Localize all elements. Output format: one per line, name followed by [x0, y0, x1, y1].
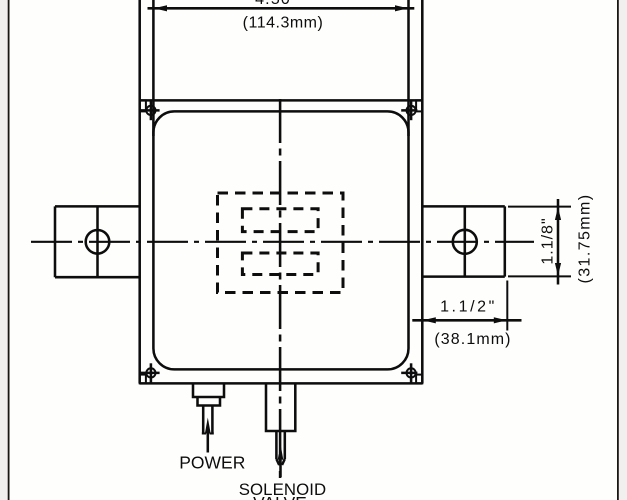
wire: right extension line of 1.1/2in dimension — [506, 281, 508, 331]
svg-text:(114.3mm): (114.3mm) — [243, 15, 324, 32]
wire: left dimension extension line through screw A — [152, 0, 155, 136]
wire: leader line from SOLENOID VALVE label — [279, 460, 282, 477]
corner relief box top-left — [140, 100, 146, 111]
corner relief box bottom-left — [140, 375, 146, 384]
left mounting tab outline — [55, 206, 140, 277]
wire: leader line from POWER label — [207, 434, 210, 453]
vertical center line — [279, 99, 282, 478]
power terminal pin — [203, 406, 212, 434]
hidden solenoid housing (dashed outline) — [218, 193, 344, 293]
right mounting hole — [453, 230, 477, 254]
dimension line 1.1/2in at lower right — [412, 319, 521, 322]
cover plate (inner rounded rectangle) — [153, 111, 408, 369]
wire: valve body top edge — [140, 99, 423, 102]
leader arrow base tick left — [202, 433, 206, 435]
screw D (bottom-right cover screw) — [401, 363, 417, 383]
arrowhead right of 1.1/2in dimension — [494, 317, 507, 323]
svg-text:4.50": 4.50" — [255, 0, 298, 8]
solenoid valve mount prongs — [276, 431, 284, 465]
wire: right outer edge of valve body with extension to top — [421, 0, 424, 383]
wire: lower extension line of 1.1/8in dimension — [508, 275, 571, 277]
screw B (top-right cover screw) — [401, 101, 417, 121]
dimension line 4.50in across top — [148, 7, 415, 10]
svg-text:(38.1mm): (38.1mm) — [434, 331, 511, 348]
hidden coil upper winding (dashed) — [242, 209, 318, 232]
horizontal center line — [31, 241, 534, 243]
wire: left outer edge of valve body with extension to top — [138, 0, 141, 383]
leader arrowhead to solenoid valve mount — [278, 444, 284, 460]
wire: upper extension line of 1.1/8in dimension — [508, 206, 571, 208]
left mounting hole — [86, 230, 110, 254]
svg-text:POWER: POWER — [179, 453, 245, 473]
hidden coil lower winding (dashed) — [242, 253, 318, 275]
leader arrow base tick right — [210, 433, 214, 435]
solenoid valve mount port housing — [266, 385, 295, 432]
arrowhead up of 1.1/8in dimension — [555, 207, 561, 220]
corner relief box bottom-right — [416, 375, 422, 384]
right mounting tab outline — [422, 206, 505, 276]
arrowhead down of 1.1/8in dimension — [555, 263, 561, 276]
leader arrowhead to power pin — [205, 418, 211, 434]
screw A (top-left cover screw) — [140, 101, 160, 121]
wire: valve body bottom edge — [140, 382, 423, 385]
arrowhead left of 4.50in dimension — [154, 5, 167, 11]
wire: right dimension extension line through screw B — [407, 0, 410, 136]
svg-text:1.1/8": 1.1/8" — [540, 217, 557, 264]
dimension line 1.1/8in at right — [557, 199, 560, 285]
screw C (bottom-left cover screw) — [140, 363, 160, 383]
svg-text:1.1/2": 1.1/2" — [440, 299, 497, 316]
svg-text:VALVE: VALVE — [253, 493, 307, 500]
svg-text:(31.75mm): (31.75mm) — [577, 194, 594, 284]
power connector housing — [193, 385, 224, 406]
arrowhead right of 4.50in dimension — [395, 5, 408, 11]
arrowhead left of 1.1/2in dimension — [423, 317, 436, 323]
corner relief box top-right — [416, 100, 422, 111]
